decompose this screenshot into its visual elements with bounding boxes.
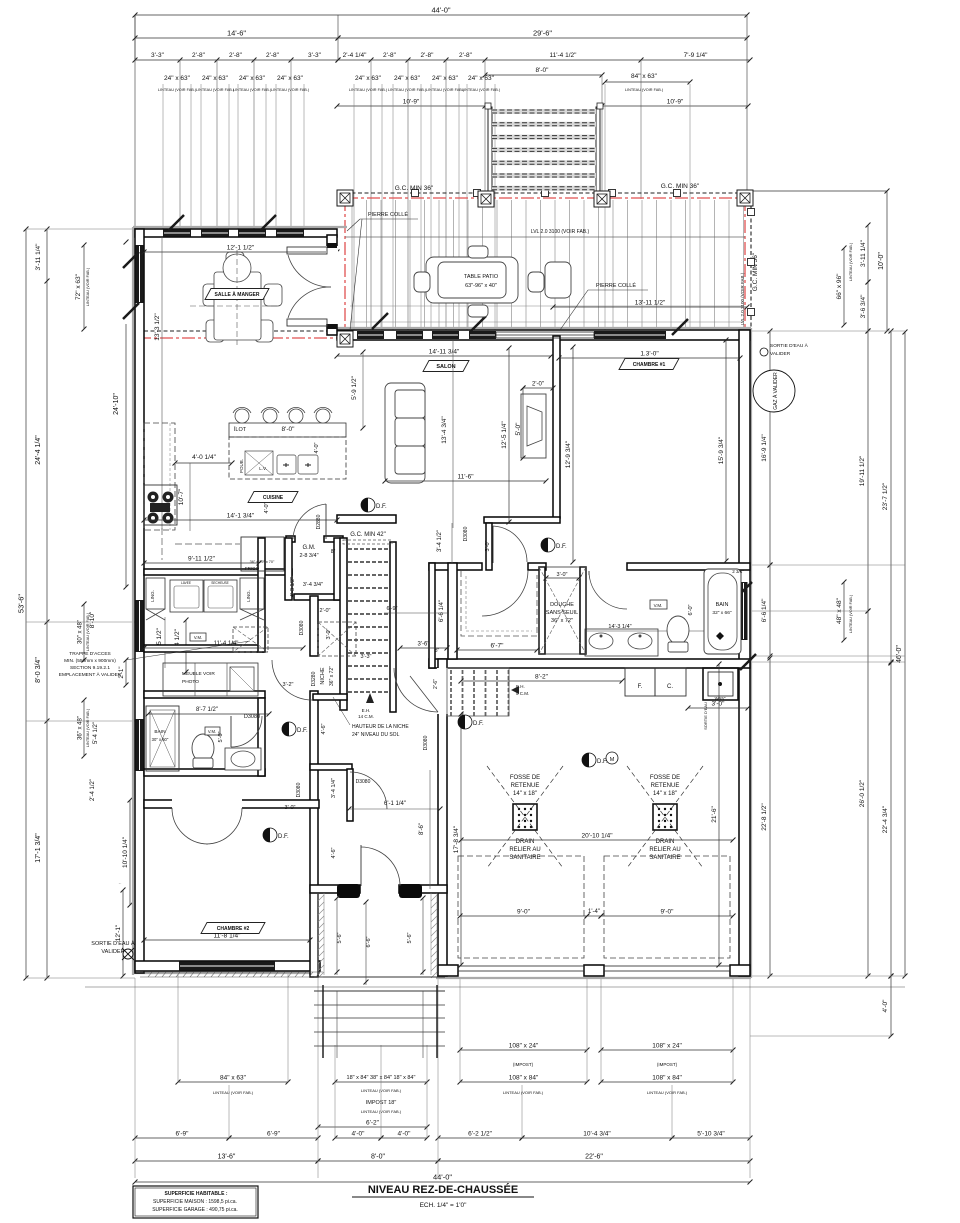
patio posts	[337, 190, 353, 206]
svg-text:24" NIVEAU DU SOL: 24" NIVEAU DU SOL	[352, 732, 400, 738]
right dimension column	[740, 189, 907, 1039]
svg-text:20'-10 1/4": 20'-10 1/4"	[581, 833, 613, 840]
interior walls	[144, 336, 750, 821]
svg-text:11'-8 1/4": 11'-8 1/4"	[214, 933, 242, 940]
svg-text:6'-7": 6'-7"	[491, 643, 505, 650]
svg-text:3'-0": 3'-0"	[485, 540, 491, 551]
svg-text:66" x 96": 66" x 96"	[836, 273, 843, 300]
svg-text:D.F.: D.F.	[278, 834, 289, 840]
svg-text:LINTEAU (VOIR FAB.): LINTEAU (VOIR FAB.)	[647, 1090, 688, 1095]
svg-text:V.M.: V.M.	[194, 635, 202, 640]
tv unit	[521, 394, 546, 458]
svg-text:5'-0": 5'-0"	[515, 422, 522, 436]
svg-text:3'-4 1/2": 3'-4 1/2"	[437, 530, 443, 552]
svg-text:4'-0": 4'-0"	[264, 502, 270, 513]
svg-text:14'-11 3/4": 14'-11 3/4"	[429, 349, 460, 356]
svg-text:30" x 60": 30" x 60"	[152, 737, 169, 742]
svg-text:SUPERFICIE MAISON : 1598,5 pi: SUPERFICIE MAISON : 1598,5 pi.ca.	[153, 1199, 237, 1205]
svg-text:HAUTEUR DE LA NICHE: HAUTEUR DE LA NICHE	[352, 724, 409, 730]
svg-text:10'-7": 10'-7"	[178, 488, 185, 505]
svg-text:SALLE À MANGER: SALLE À MANGER	[215, 291, 260, 298]
top dimension rows	[133, 6, 753, 331]
svg-text:4'-0": 4'-0"	[352, 1131, 366, 1138]
garage entry stairs	[447, 668, 529, 716]
svg-text:13'-3 1/2": 13'-3 1/2"	[154, 313, 161, 341]
svg-text:36" x 48": 36" x 48"	[78, 716, 84, 740]
svg-text:4'-0": 4'-0"	[398, 1131, 412, 1138]
svg-text:24" x 63": 24" x 63"	[394, 75, 421, 82]
svg-text:1'-4": 1'-4"	[588, 909, 600, 915]
svg-text:D3080: D3080	[296, 782, 302, 797]
svg-text:CHAMBRE #2: CHAMBRE #2	[217, 926, 250, 932]
svg-text:V.M.: V.M.	[208, 729, 216, 734]
svg-text:(IMPOST): (IMPOST)	[657, 1062, 678, 1067]
svg-text:3'-4 3/4": 3'-4 3/4"	[303, 582, 323, 588]
svg-text:8'-7 1/2": 8'-7 1/2"	[196, 707, 218, 713]
svg-text:8'-10": 8'-10"	[89, 611, 96, 628]
svg-text:24" x 63": 24" x 63"	[468, 75, 495, 82]
svg-text:LINTEAU (VOIR FAB.): LINTEAU (VOIR FAB.)	[361, 1088, 402, 1093]
svg-text:6'-9": 6'-9"	[176, 1131, 190, 1138]
svg-text:24'-4 1/4": 24'-4 1/4"	[35, 435, 42, 465]
svg-text:3'-2": 3'-2"	[283, 682, 294, 688]
svg-text:14'-1 3/4": 14'-1 3/4"	[227, 513, 255, 520]
svg-text:30" x 48": 30" x 48"	[78, 620, 84, 644]
svg-text:14" x 18": 14" x 18"	[513, 791, 537, 797]
svg-text:2'-8": 2'-8"	[266, 52, 280, 59]
svg-text:FRIGO: FRIGO	[245, 566, 260, 571]
svg-text:8'-2": 8'-2"	[535, 674, 549, 681]
walk-in closet dashed	[461, 571, 537, 636]
legend box	[133, 1186, 258, 1218]
svg-text:10'-9": 10'-9"	[403, 99, 420, 106]
svg-text:D3280: D3280	[311, 671, 317, 686]
svg-text:108" x 84": 108" x 84"	[509, 1075, 539, 1082]
svg-text:F.: F.	[638, 684, 643, 690]
svg-text:5'-6": 5'-6"	[407, 932, 413, 943]
svg-text:E.H.: E.H.	[362, 708, 371, 713]
svg-text:6'-9": 6'-9"	[387, 606, 398, 612]
svg-text:D.F.: D.F.	[297, 728, 308, 734]
svg-text:3'-11 1/4": 3'-11 1/4"	[860, 239, 867, 267]
svg-text:6'-6 1/4": 6'-6 1/4"	[439, 600, 445, 622]
svg-text:8": 8"	[331, 549, 336, 555]
svg-text:17'-1 3/4": 17'-1 3/4"	[35, 833, 42, 863]
chambre 2	[201, 923, 265, 934]
svg-text:G.M.: G.M.	[303, 545, 316, 551]
svg-text:NIVEAU REZ-DE-CHAUSSÉE: NIVEAU REZ-DE-CHAUSSÉE	[368, 1183, 518, 1196]
svg-text:D3080: D3080	[244, 714, 260, 720]
svg-text:ÎLOT: ÎLOT	[233, 426, 247, 433]
svg-text:10'-0": 10'-0"	[878, 252, 885, 270]
svg-text:26'-0 1/2": 26'-0 1/2"	[859, 779, 866, 807]
svg-text:36" x 29" x 70": 36" x 29" x 70"	[250, 560, 275, 564]
svg-text:108" x 24": 108" x 24"	[652, 1043, 682, 1050]
svg-text:C.: C.	[667, 684, 673, 690]
svg-text:13'-4 3/4": 13'-4 3/4"	[441, 416, 448, 444]
svg-text:PHOTO: PHOTO	[182, 679, 199, 685]
svg-text:2'-8": 2'-8"	[383, 52, 397, 59]
svg-text:8'-0": 8'-0"	[536, 67, 550, 74]
svg-text:MEUBLE VOIR: MEUBLE VOIR	[182, 671, 215, 677]
svg-text:6'-6 1/4": 6'-6 1/4"	[761, 598, 768, 622]
svg-text:13'-6": 13'-6"	[218, 1154, 236, 1161]
svg-text:12'-1 1/2": 12'-1 1/2"	[227, 245, 255, 252]
svg-text:84" x 63": 84" x 63"	[631, 73, 658, 80]
svg-text:6'-2 1/2": 6'-2 1/2"	[468, 1131, 492, 1138]
svg-text:G.C. MIN 36": G.C. MIN 36"	[752, 252, 759, 291]
svg-text:3'-6 3/4": 3'-6 3/4"	[860, 294, 867, 318]
svg-text:36" x 72": 36" x 72"	[329, 666, 335, 686]
svg-text:8'-0": 8'-0"	[282, 426, 296, 433]
svg-text:D.F.: D.F.	[376, 504, 387, 510]
svg-text:5'-4 1/2": 5'-4 1/2"	[93, 722, 99, 744]
patio G.C. dashed railing	[144, 190, 755, 332]
svg-text:11'-6": 11'-6"	[457, 474, 474, 481]
svg-text:24" x 63": 24" x 63"	[355, 75, 382, 82]
svg-text:SORTIE D'EAU: SORTIE D'EAU	[703, 702, 708, 730]
svg-text:8'-6": 8'-6"	[419, 823, 425, 835]
svg-text:CHAMBRE #1: CHAMBRE #1	[633, 362, 666, 368]
gaz a valider circle	[753, 370, 795, 412]
svg-text:53'-6": 53'-6"	[17, 594, 26, 613]
svg-text:14 C.M.: 14 C.M.	[358, 714, 374, 719]
exterior walls	[133, 227, 751, 978]
svg-text:4'-0": 4'-0"	[882, 999, 889, 1013]
svg-text:10'-4 3/4": 10'-4 3/4"	[583, 1131, 611, 1138]
attic access hatch	[59, 622, 356, 678]
svg-text:108" x 84": 108" x 84"	[652, 1075, 682, 1082]
svg-text:3'-3": 3'-3"	[308, 52, 322, 59]
svg-text:LINTEAU (VOIR FAB.): LINTEAU (VOIR FAB.)	[625, 88, 664, 92]
svg-text:RETENUE: RETENUE	[651, 783, 680, 789]
patio deck boards	[345, 200, 745, 329]
svg-text:2'-6": 2'-6"	[433, 679, 439, 689]
svg-text:24" x 63": 24" x 63"	[164, 75, 191, 82]
svg-text:D.F.: D.F.	[473, 721, 484, 727]
svg-text:SORTIE D'EAU À: SORTIE D'EAU À	[91, 940, 135, 947]
svg-text:9'-0": 9'-0"	[661, 909, 675, 916]
svg-text:24" x 63": 24" x 63"	[432, 75, 459, 82]
svg-text:8'-0": 8'-0"	[371, 1154, 385, 1161]
svg-text:10'-10 1/4": 10'-10 1/4"	[122, 836, 129, 868]
svg-text:24'-10": 24'-10"	[113, 393, 120, 415]
kitchen	[142, 407, 346, 597]
svg-text:14'-3 1/4": 14'-3 1/4"	[608, 624, 631, 630]
svg-text:3'-6": 3'-6"	[418, 642, 430, 648]
garage interior	[453, 662, 750, 971]
svg-text:D3080: D3080	[356, 779, 371, 785]
svg-text:1.3'-0": 1.3'-0"	[640, 351, 659, 358]
svg-text:LAVEE: LAVEE	[181, 581, 191, 585]
svg-text:3'-0": 3'-0"	[285, 805, 296, 811]
svg-text:72" x 63": 72" x 63"	[75, 273, 82, 300]
svg-text:12'-5 1/4": 12'-5 1/4"	[501, 421, 508, 449]
svg-text:32" x 66": 32" x 66"	[712, 610, 731, 616]
svg-text:SORTIE D'EAU À: SORTIE D'EAU À	[770, 342, 809, 349]
svg-text:3'-3": 3'-3"	[361, 654, 372, 660]
svg-text:8'-0 3/4": 8'-0 3/4"	[35, 657, 42, 683]
svg-text:4'-3 1/2": 4'-3 1/2"	[290, 577, 296, 597]
svg-text:D3080: D3080	[463, 526, 469, 541]
svg-text:LING.: LING.	[150, 590, 155, 602]
svg-text:2'-0": 2'-0"	[320, 608, 331, 614]
svg-text:RELIER AU: RELIER AU	[649, 847, 680, 853]
svg-text:3'-3": 3'-3"	[151, 52, 165, 59]
svg-text:17'-8 3/4": 17'-8 3/4"	[453, 825, 460, 853]
svg-text:PIERRE COLLÉ: PIERRE COLLÉ	[596, 282, 636, 289]
svg-text:CUISINE: CUISINE	[263, 495, 284, 501]
svg-text:7'-9 1/4": 7'-9 1/4"	[684, 52, 708, 59]
svg-text:LING.: LING.	[246, 590, 251, 602]
svg-text:G.C. MIN 36": G.C. MIN 36"	[661, 183, 700, 190]
bottom dimension rows	[85, 972, 905, 1184]
svg-text:24" x 63": 24" x 63"	[239, 75, 266, 82]
front porch	[314, 884, 445, 1058]
svg-text:2-8 3/4": 2-8 3/4"	[299, 553, 318, 559]
svg-text:6'-0": 6'-0"	[688, 604, 694, 615]
svg-text:SECTION 9.19.2.1: SECTION 9.19.2.1	[70, 665, 110, 671]
svg-text:4'-0": 4'-0"	[314, 442, 320, 453]
svg-text:4'-0 1/4": 4'-0 1/4"	[192, 454, 216, 461]
svg-text:63"-96" x 40": 63"-96" x 40"	[465, 283, 497, 289]
svg-text:(IMPOST): (IMPOST)	[513, 1062, 534, 1067]
dining east wall + french doors	[327, 235, 337, 335]
svg-text:24" x 63": 24" x 63"	[277, 75, 304, 82]
svg-text:11'-4 1/2": 11'-4 1/2"	[550, 52, 578, 59]
svg-text:44'-0": 44'-0"	[431, 6, 450, 15]
svg-text:D.F.: D.F.	[556, 544, 567, 550]
svg-text:16'-9 1/4": 16'-9 1/4"	[761, 434, 768, 462]
svg-text:22'-6": 22'-6"	[585, 1154, 603, 1161]
central staircase	[343, 532, 392, 719]
red dash-dot patio outline	[138, 198, 745, 338]
svg-text:84" x 63": 84" x 63"	[220, 1075, 247, 1082]
svg-text:GAZ À VALIDER: GAZ À VALIDER	[772, 372, 779, 410]
svg-text:VALIDER: VALIDER	[770, 351, 791, 357]
svg-text:6'-1 1/4": 6'-1 1/4"	[384, 801, 406, 807]
svg-text:RELIER AU: RELIER AU	[509, 847, 540, 853]
svg-text:22'-4 3/4": 22'-4 3/4"	[882, 805, 889, 833]
svg-text:LINTEAU (VOIR FAB.): LINTEAU (VOIR FAB.)	[849, 594, 853, 633]
left dimension column	[17, 227, 189, 981]
svg-text:SANS SEUIL: SANS SEUIL	[546, 610, 578, 616]
svg-text:2'-4 1/4": 2'-4 1/4"	[343, 52, 367, 59]
svg-text:G.C. MIN 42": G.C. MIN 42"	[350, 532, 385, 538]
svg-text:LINTEAU (VOIR FAB.): LINTEAU (VOIR FAB.)	[849, 242, 853, 281]
svg-text:48" x 48": 48" x 48"	[836, 597, 843, 624]
svg-text:LVL 2.0 3100 (VOIR FAB.): LVL 2.0 3100 (VOIR FAB.)	[531, 229, 590, 235]
svg-text:G.C. MIN 36": G.C. MIN 36"	[395, 185, 434, 192]
svg-text:LINTEAU (VOIR FAB.): LINTEAU (VOIR FAB.)	[503, 1090, 544, 1095]
svg-text:MIN. (550mm x 900mm): MIN. (550mm x 900mm)	[64, 658, 116, 664]
svg-text:NICHE: NICHE	[320, 667, 326, 684]
dining table and chairs	[203, 252, 282, 342]
svg-text:2 3/4": 2 3/4"	[732, 569, 744, 574]
laundry	[142, 578, 317, 696]
svg-text:LINTEAU (VOIR FAB.): LINTEAU (VOIR FAB.)	[86, 708, 90, 747]
svg-text:2'-4 1/2": 2'-4 1/2"	[90, 779, 96, 801]
svg-text:44'-0": 44'-0"	[433, 1173, 452, 1182]
svg-text:14" x 18": 14" x 18"	[653, 791, 677, 797]
svg-text:D3080: D3080	[423, 735, 429, 750]
bathroom right	[439, 567, 744, 656]
svg-text:4'-6": 4'-6"	[331, 847, 337, 858]
svg-text:19'-11 1/2": 19'-11 1/2"	[859, 455, 866, 486]
front door	[361, 847, 400, 886]
svg-text:46'-0": 46'-0"	[896, 645, 903, 663]
svg-text:10'-9": 10'-9"	[667, 99, 684, 106]
svg-text:TRAPPE D'ACCES: TRAPPE D'ACCES	[69, 651, 110, 657]
svg-text:PIERRE COLLÉ: PIERRE COLLÉ	[368, 211, 408, 218]
svg-text:D2880: D2880	[316, 514, 322, 529]
svg-text:3'-0": 3'-0"	[712, 701, 726, 708]
brick corner hatch marks	[123, 215, 756, 670]
svg-text:FOSSE DE: FOSSE DE	[650, 775, 680, 781]
windows	[136, 230, 748, 971]
svg-text:3'-0": 3'-0"	[557, 572, 568, 578]
svg-text:BAIN: BAIN	[716, 602, 729, 608]
svg-text:LVL 2.0 3100 (VOIR FAB.): LVL 2.0 3100 (VOIR FAB.)	[740, 272, 745, 325]
svg-text:BAIN: BAIN	[154, 729, 166, 735]
svg-text:108" x 24": 108" x 24"	[509, 1043, 539, 1050]
svg-text:M: M	[610, 757, 615, 763]
powder room	[146, 706, 272, 771]
svg-text:POUB.: POUB.	[239, 459, 244, 473]
salon sofa	[385, 383, 425, 483]
chambre1 door arc	[493, 526, 527, 562]
svg-text:6'-2": 6'-2"	[366, 1120, 380, 1127]
svg-text:36" x 72": 36" x 72"	[551, 618, 573, 624]
svg-text:24" x 63": 24" x 63"	[202, 75, 229, 82]
svg-text:DOUCHE: DOUCHE	[550, 602, 574, 608]
svg-text:6'-6": 6'-6"	[366, 936, 372, 947]
svg-text:VALIDER: VALIDER	[101, 949, 124, 955]
svg-text:D3080: D3080	[299, 620, 305, 635]
svg-text:12'-1": 12'-1"	[115, 924, 122, 941]
svg-text:9'-11 1/2": 9'-11 1/2"	[188, 556, 216, 563]
chambre 1	[619, 359, 679, 370]
patio table	[414, 246, 571, 317]
svg-text:L.V.: L.V.	[259, 466, 267, 471]
svg-text:V.M.: V.M.	[654, 603, 663, 608]
svg-text:SUPERFICIE HABITABLE :: SUPERFICIE HABITABLE :	[165, 1191, 228, 1197]
svg-text:ECH. 1/4" = 1'0": ECH. 1/4" = 1'0"	[420, 1202, 468, 1209]
svg-text:2'-8": 2'-8"	[229, 52, 243, 59]
svg-text:4'-6": 4'-6"	[321, 723, 327, 734]
svg-text:12'-9 3/4": 12'-9 3/4"	[565, 440, 572, 468]
svg-text:EMPLACEMENT À VALIDER: EMPLACEMENT À VALIDER	[59, 671, 122, 678]
svg-text:6'-9": 6'-9"	[267, 1131, 281, 1138]
svg-text:5'-9 1/2": 5'-9 1/2"	[351, 375, 358, 399]
hall labels and small dims	[244, 514, 491, 889]
svg-text:RETENUE: RETENUE	[511, 783, 540, 789]
svg-text:LINTEAU (VOIR FAB.): LINTEAU (VOIR FAB.)	[213, 1090, 254, 1095]
svg-text:5'-10 3/4": 5'-10 3/4"	[697, 1131, 725, 1138]
svg-text:3'-4 1/4": 3'-4 1/4"	[331, 778, 337, 798]
svg-text:SUPERFICIE GARAGE : 490,75 pi.: SUPERFICIE GARAGE : 490,75 pi.ca.	[152, 1207, 238, 1213]
svg-text:15'-9 3/4": 15'-9 3/4"	[718, 436, 725, 464]
exterior stairs to deck	[485, 103, 603, 193]
svg-text:29'-6": 29'-6"	[533, 29, 552, 38]
svg-text:SECHEUSE: SECHEUSE	[211, 581, 229, 585]
svg-text:8": 8"	[435, 648, 440, 654]
svg-text:22'-8 1/2": 22'-8 1/2"	[761, 803, 768, 831]
svg-text:TABLE PATIO: TABLE PATIO	[464, 274, 499, 280]
svg-text:23'-7 1/2": 23'-7 1/2"	[882, 482, 889, 510]
svg-text:2'-8": 2'-8"	[192, 52, 206, 59]
svg-text:21'-6": 21'-6"	[711, 806, 718, 823]
svg-text:2'-8": 2'-8"	[459, 52, 473, 59]
svg-text:13'-11 1/2": 13'-11 1/2"	[635, 300, 666, 307]
svg-text:LINTEAU (VOIR FAB.): LINTEAU (VOIR FAB.)	[361, 1109, 402, 1114]
svg-text:14'-6": 14'-6"	[227, 29, 246, 38]
svg-text:2'-8": 2'-8"	[421, 52, 435, 59]
svg-text:9'-0": 9'-0"	[517, 909, 531, 916]
window sill hatch bottom	[140, 972, 323, 977]
svg-text:LINTEAU (VOIR FAB.): LINTEAU (VOIR FAB.)	[86, 267, 90, 306]
svg-text:2'-0": 2'-0"	[532, 382, 544, 388]
svg-text:5'-0": 5'-0"	[218, 731, 224, 742]
svg-text:3'-11 1/4": 3'-11 1/4"	[35, 243, 42, 271]
svg-text:5'-6": 5'-6"	[337, 932, 343, 943]
svg-text:FOSSE DE: FOSSE DE	[510, 775, 540, 781]
